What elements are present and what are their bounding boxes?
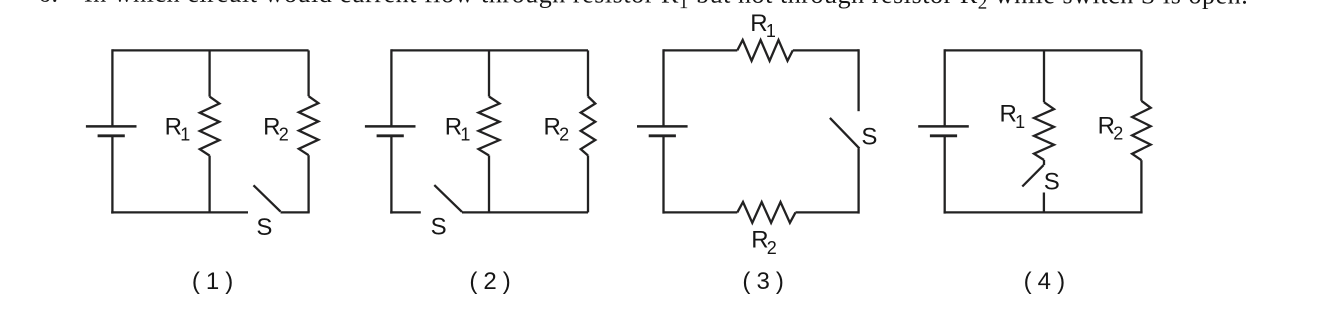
- wire branch R1 top: [488, 50, 490, 96]
- svg-text:1: 1: [766, 21, 776, 41]
- battery long plate: [86, 125, 137, 128]
- wire bottom left: [111, 211, 248, 213]
- switch S blade: [434, 185, 462, 212]
- battery short plate: [98, 134, 125, 137]
- wire bottom from battery: [390, 211, 421, 213]
- svg-text:2: 2: [279, 125, 289, 145]
- resistor R1: [737, 40, 793, 61]
- wire right lower: [857, 148, 859, 213]
- svg-text:S: S: [1044, 169, 1060, 196]
- svg-text:2: 2: [559, 125, 569, 145]
- svg-text:S: S: [256, 214, 272, 241]
- resistor R2: [299, 96, 319, 155]
- wire right upper: [857, 49, 859, 111]
- svg-text:2: 2: [767, 238, 777, 258]
- svg-text:( 2 ): ( 2 ): [469, 268, 510, 295]
- wire battery bottom lead: [390, 136, 392, 214]
- wire branch R1 top: [1043, 50, 1045, 102]
- wire branch R1 bottom: [488, 156, 490, 213]
- wire bottom left: [664, 211, 738, 213]
- wire branch R2 top: [587, 50, 589, 96]
- wire branch R1 bottom: [208, 156, 210, 213]
- wire top right: [793, 49, 859, 51]
- resistor R1: [1034, 102, 1054, 160]
- resistor R2: [737, 202, 795, 223]
- svg-text:6.In which circuit would curre: 6.In which circuit would current flow th…: [38, 0, 1248, 14]
- wire bottom right: [796, 211, 859, 213]
- resistor R1: [479, 97, 500, 156]
- battery long plate: [365, 125, 416, 128]
- wire top left: [664, 49, 738, 51]
- wire switch stub: [1043, 193, 1045, 213]
- resistor R1: [200, 97, 220, 156]
- switch S blade: [830, 118, 860, 148]
- wire top: [112, 49, 308, 51]
- wire battery top lead: [944, 49, 946, 126]
- wire bottom: [944, 211, 1143, 213]
- wire battery top lead: [390, 49, 392, 126]
- circuit 4: [918, 49, 1150, 295]
- switch S blade: [254, 185, 281, 211]
- wire battery bottom lead: [662, 136, 664, 214]
- svg-text:1: 1: [180, 125, 190, 145]
- wire bottom right: [462, 211, 588, 213]
- battery: [86, 49, 137, 213]
- svg-text:( 4 ): ( 4 ): [1024, 268, 1065, 295]
- svg-text:S: S: [431, 214, 447, 241]
- wire top: [391, 49, 588, 51]
- circuit 1: [86, 49, 319, 295]
- resistor R2: [581, 97, 596, 156]
- wire R1 to switch: [1043, 160, 1045, 165]
- wire switch to corner: [281, 211, 310, 213]
- svg-text:( 3 ): ( 3 ): [742, 268, 783, 295]
- battery: [365, 49, 416, 213]
- battery: [918, 49, 969, 213]
- battery long plate: [637, 125, 688, 128]
- wire battery top lead: [111, 49, 113, 126]
- wire branch R2 bottom: [1140, 160, 1142, 212]
- wire branch R2 bottom: [307, 155, 309, 212]
- battery short plate: [930, 134, 957, 137]
- svg-text:2: 2: [1113, 124, 1123, 144]
- battery short plate: [649, 134, 676, 137]
- svg-text:1: 1: [460, 125, 470, 145]
- battery long plate: [918, 125, 969, 128]
- wire branch R2 bottom: [587, 156, 589, 213]
- wire branch R2 top: [307, 50, 309, 96]
- wire battery bottom lead: [944, 136, 946, 214]
- wire top: [945, 49, 1142, 51]
- svg-text:( 1 ): ( 1 ): [192, 268, 233, 295]
- wire battery top lead: [662, 49, 664, 126]
- svg-text:S: S: [861, 124, 877, 151]
- battery short plate: [377, 134, 404, 137]
- resistor R2: [1132, 101, 1151, 160]
- circuit 3: [637, 10, 877, 295]
- battery: [637, 49, 688, 213]
- switch S blade: [1022, 165, 1043, 186]
- wire battery bottom lead: [111, 136, 113, 214]
- svg-text:1: 1: [1015, 112, 1025, 132]
- circuit 2: [365, 49, 595, 295]
- wire branch R2 top: [1140, 50, 1142, 100]
- wire branch R1 top: [208, 50, 210, 96]
